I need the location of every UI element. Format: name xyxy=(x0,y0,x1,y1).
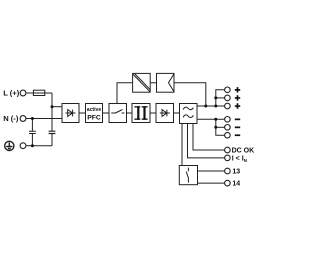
wire N line xyxy=(26,118,62,120)
label + row3 xyxy=(235,103,240,108)
wire switch box top to bypass branch xyxy=(117,83,132,104)
terminal - row2 xyxy=(225,125,231,131)
wire transformer to output diode xyxy=(150,112,156,114)
label + row2 xyxy=(235,95,240,100)
transformer box T1 xyxy=(132,104,150,123)
svg-text:DC OK: DC OK xyxy=(232,148,255,155)
wire relay to terminal 14 xyxy=(198,182,225,184)
terminal - row3 xyxy=(225,132,231,138)
boost box (chevron) xyxy=(157,73,175,92)
node junction N/C1 xyxy=(31,117,34,120)
label + row1 xyxy=(235,87,240,136)
node plus bus junctions xyxy=(204,105,207,108)
fuse F1 xyxy=(33,90,44,95)
earth PE symbol xyxy=(5,141,14,150)
terminal 14 xyxy=(225,180,231,186)
node minus bus junctions xyxy=(214,118,217,121)
transformer symbol xyxy=(134,106,147,120)
svg-text:L (+): L (+) xyxy=(3,89,20,98)
bridge rectifier diode symbol xyxy=(66,110,76,117)
wire C2 to ground line xyxy=(51,134,53,146)
capacitor C2 xyxy=(49,131,56,133)
chevron symbol xyxy=(169,74,175,92)
capacitor C1 xyxy=(29,119,36,146)
wire L line through fuse xyxy=(26,92,52,94)
active PFC box xyxy=(86,104,103,123)
wire filter drop to DC OK xyxy=(193,124,225,151)
relay box K1 xyxy=(179,166,197,185)
wire plus bus xyxy=(216,90,225,106)
wire minus bus xyxy=(216,119,225,135)
svg-text:PFC: PFC xyxy=(87,115,101,122)
wire plus output rail xyxy=(197,105,225,107)
node junction ground/C1 xyxy=(31,144,34,147)
terminal L xyxy=(20,90,26,96)
wire relay to terminal 13 xyxy=(198,170,225,172)
svg-text:14: 14 xyxy=(232,181,240,188)
terminal DC OK xyxy=(225,147,231,153)
terminal ground aux xyxy=(20,143,26,149)
output diode symbol xyxy=(160,110,170,117)
wire filter drop to I<In xyxy=(188,124,225,158)
wire rectifier top input xyxy=(52,106,62,108)
output diode box xyxy=(156,104,174,123)
wire minus output rail xyxy=(197,118,225,120)
diagonal symbol xyxy=(133,74,150,92)
bridge rectifier box xyxy=(62,104,79,123)
terminal 13 xyxy=(225,168,231,174)
svg-text:N (-): N (-) xyxy=(3,114,19,123)
wire minus stub row2 xyxy=(216,126,225,128)
wire plus stub row2 xyxy=(216,97,225,99)
terminal + row2 xyxy=(225,95,231,101)
wire between top boxes xyxy=(150,82,156,84)
wire switch to transformer xyxy=(127,112,133,114)
switch symbol xyxy=(111,110,124,114)
terminal + row3 xyxy=(225,103,231,109)
DC/DC bypass box (diagonal) xyxy=(133,73,151,92)
wire PFC to switch xyxy=(103,112,110,114)
svg-text:I < IN: I < IN xyxy=(232,155,248,162)
svg-text:13: 13 xyxy=(232,169,240,176)
filter box xyxy=(180,104,198,124)
label - row2 xyxy=(235,127,240,129)
wire output diode to filter xyxy=(174,112,180,114)
terminal - row1 xyxy=(225,117,231,123)
terminal N xyxy=(20,116,26,122)
wire bypass output down to plus rail xyxy=(174,83,206,106)
filter sine symbols xyxy=(183,107,193,110)
node junction L/rectifier xyxy=(51,105,54,108)
terminal I<In xyxy=(225,155,231,161)
relay contact symbol xyxy=(186,168,188,183)
wire filter drop to relay xyxy=(181,124,183,166)
switch box S1 xyxy=(109,104,127,123)
label - row3 xyxy=(235,134,240,136)
terminal + row1 xyxy=(225,87,231,93)
label - row1 xyxy=(235,119,240,121)
svg-text:active: active xyxy=(87,107,102,113)
wire ground line xyxy=(26,145,52,147)
wire L vertical drop to rectifier input and capacitor C2 xyxy=(51,93,53,131)
wire rectifier to PFC xyxy=(79,112,86,114)
